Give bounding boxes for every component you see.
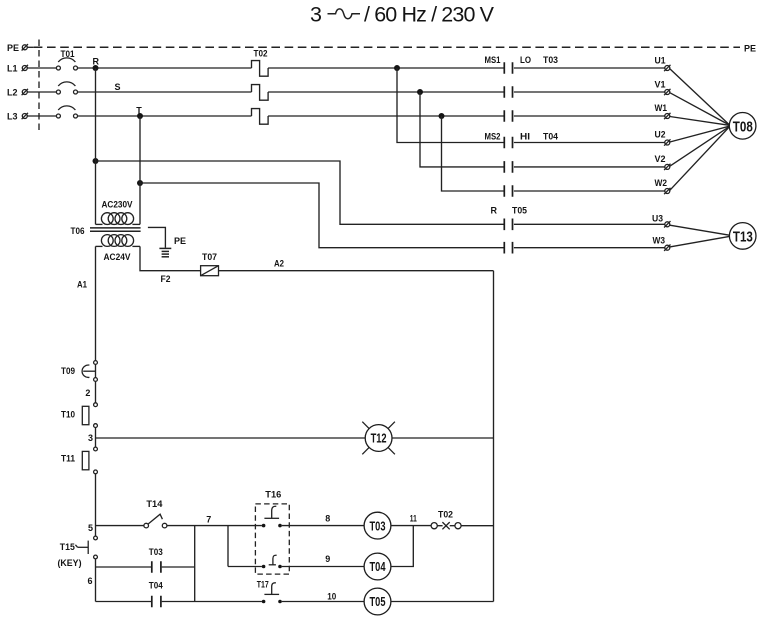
PE dashed bus top [34,44,756,54]
switch T14 [144,499,167,528]
svg-text:F2: F2 [161,274,171,284]
wire L2 T01 to overload [77,91,251,93]
node junction L2 drop [417,89,423,95]
wire drop to U2 row [397,68,504,143]
switch T09 [61,361,97,382]
svg-text:T16: T16 [265,490,281,500]
relay box T16 dashed [255,490,289,574]
wire right rail [493,271,495,602]
wire secondary right down to fuse row [140,246,201,270]
node PE left [7,43,34,53]
fuse T10 [61,403,97,428]
svg-text:L3: L3 [7,112,18,122]
node junction L3 drop [439,113,445,119]
contactor R T05 contacts [491,206,528,254]
svg-text:A2: A2 [274,258,284,268]
transformer T06 [71,200,141,262]
svg-text:U1: U1 [655,55,666,65]
svg-text:T07: T07 [202,252,217,262]
motor T08 [729,113,756,140]
svg-text:10: 10 [327,591,336,601]
svg-text:T05: T05 [512,206,527,216]
key switch T15 [58,536,98,568]
svg-text:V2: V2 [655,154,666,164]
node T [136,106,143,119]
wire T16 lower to coil T04 [282,566,364,568]
svg-text:AC230V: AC230V [102,200,133,210]
contact T17 [257,580,282,604]
wire junction drop x194 row5 to row10 [194,526,196,602]
svg-text:U2: U2 [655,130,666,140]
node L1 [7,64,28,74]
wire coil T05 to right rail [391,601,494,603]
wire fuse to right rail [219,270,494,272]
svg-text:MS1: MS1 [485,55,501,65]
wire T15 down to bottom row [95,559,97,602]
svg-text:T15: T15 [60,542,75,552]
svg-text:U3: U3 [652,213,663,223]
wires contacts to motor terminals [514,67,665,69]
wire overload to MS1 contacts [268,67,504,69]
svg-text:11: 11 [410,514,417,524]
coil T04 [364,553,391,580]
node junction L1 drop [394,65,400,71]
wire rail from R down to transformer [95,68,97,224]
wire lamp to right rail [392,437,494,439]
wire L1 T01 to overload [77,67,251,69]
svg-text:W1: W1 [655,103,668,113]
wire row9 from x228 to T16 lower contact [228,566,262,568]
wire junction drop x228 row5 to row9 [227,526,229,567]
svg-text:T08: T08 [733,118,753,135]
terminal W3 [653,236,671,251]
svg-text:8: 8 [325,514,330,524]
svg-text:PE: PE [7,43,19,53]
svg-text:T04: T04 [149,580,163,590]
motor T13 [729,223,756,250]
svg-text:LO: LO [520,55,531,65]
svg-text:R: R [93,57,100,67]
wire row 3 to lamp T12 [96,437,366,439]
title 3~/60Hz/230V [310,3,495,27]
svg-text:T04: T04 [543,132,558,142]
svg-text:T03: T03 [543,55,558,65]
svg-text:T04: T04 [370,559,387,574]
node L2 [7,88,28,98]
wire drop to W2 row [442,116,504,191]
contactor MS1 T03 contacts [485,55,559,122]
svg-text:T03: T03 [370,518,386,533]
svg-text:PE: PE [174,236,186,246]
svg-text:9: 9 [325,554,330,564]
svg-text:T05: T05 [370,594,386,609]
fuse T07 F2 [161,252,219,284]
svg-text:L2: L2 [7,88,18,98]
contact T03 row6 [96,547,195,573]
node R [93,57,100,72]
svg-text:T02: T02 [254,48,268,58]
svg-text:7: 7 [206,514,211,524]
svg-text:HI: HI [520,132,530,142]
contact T16 upper [262,506,282,527]
wire R feeder [93,158,99,164]
dashed enclosure boundary vertical [38,40,40,134]
wire T feeder [137,180,143,186]
wires terminals to motor T13 [670,225,730,235]
svg-text:R: R [491,206,498,216]
wire rail from T down to transformer [139,116,141,224]
wires terminals to motor T08 [670,69,730,125]
terminal W1 [655,103,671,119]
svg-text:T14: T14 [146,499,162,509]
svg-text:S: S [115,82,121,92]
wire T09 to T10 [95,381,97,402]
svg-text:T03: T03 [149,547,163,557]
contact T04 bottom row [96,580,262,607]
wire coil T03 to brake T02 [391,525,431,527]
coil T05 [364,588,391,615]
wire drop to V2 row [420,92,504,167]
svg-text:2: 2 [85,388,90,398]
overload relay T02 [252,48,269,124]
coil T03 [364,512,391,539]
svg-text:T10: T10 [61,409,75,419]
svg-text:3: 3 [310,3,322,27]
wire L3 T01 to overload [77,115,251,117]
wire L1 to T01 [28,67,57,69]
lamp T12 [362,422,395,455]
svg-text:W3: W3 [653,236,666,246]
terminal W2 [655,178,671,194]
svg-text:T06: T06 [71,226,85,236]
node L3 [7,112,28,122]
svg-text:T02: T02 [438,510,453,520]
svg-text:T12: T12 [371,431,387,446]
wire row5 rail to T14 [96,525,144,527]
wire coil T04 up to node 11 [391,526,413,567]
svg-text:T17: T17 [257,580,269,590]
wire T10 to T11 through node 3 [95,428,97,448]
fuse T11 [61,447,97,474]
wire L3 to T01 [28,115,57,117]
svg-text:T13: T13 [733,228,753,245]
terminal U1 [655,55,671,71]
svg-text:(KEY): (KEY) [58,558,82,568]
svg-text:5: 5 [88,523,93,533]
contactor MS2 T04 contacts [485,132,559,197]
terminal V1 [655,79,671,95]
contact T16 lower [262,555,282,568]
breaker T01 [56,49,77,118]
svg-text:V1: V1 [655,79,666,89]
svg-text:L1: L1 [7,64,18,74]
svg-text:/ 60 Hz / 230 V: / 60 Hz / 230 V [364,3,495,27]
terminal U3 [652,213,671,227]
svg-text:W2: W2 [655,178,668,188]
terminal V2 [655,154,671,170]
wire T16 to coil T03 [282,525,364,527]
svg-text:T09: T09 [61,366,75,376]
svg-text:3: 3 [88,433,93,443]
wire T14 to T16 contact [167,525,262,527]
ground PE at transformer [148,227,186,256]
brake T02 [431,510,493,530]
wire T17 to coil T05 [282,601,364,603]
svg-text:AC24V: AC24V [104,252,131,262]
terminal U2 [655,130,671,146]
wire T11 down through node 5 to T15 [95,474,97,536]
svg-text:T11: T11 [61,453,75,463]
svg-text:MS2: MS2 [485,132,501,142]
svg-text:6: 6 [88,576,93,586]
svg-text:A1: A1 [77,280,87,290]
wire L2 to T01 [28,91,57,93]
svg-text:PE: PE [744,44,756,54]
